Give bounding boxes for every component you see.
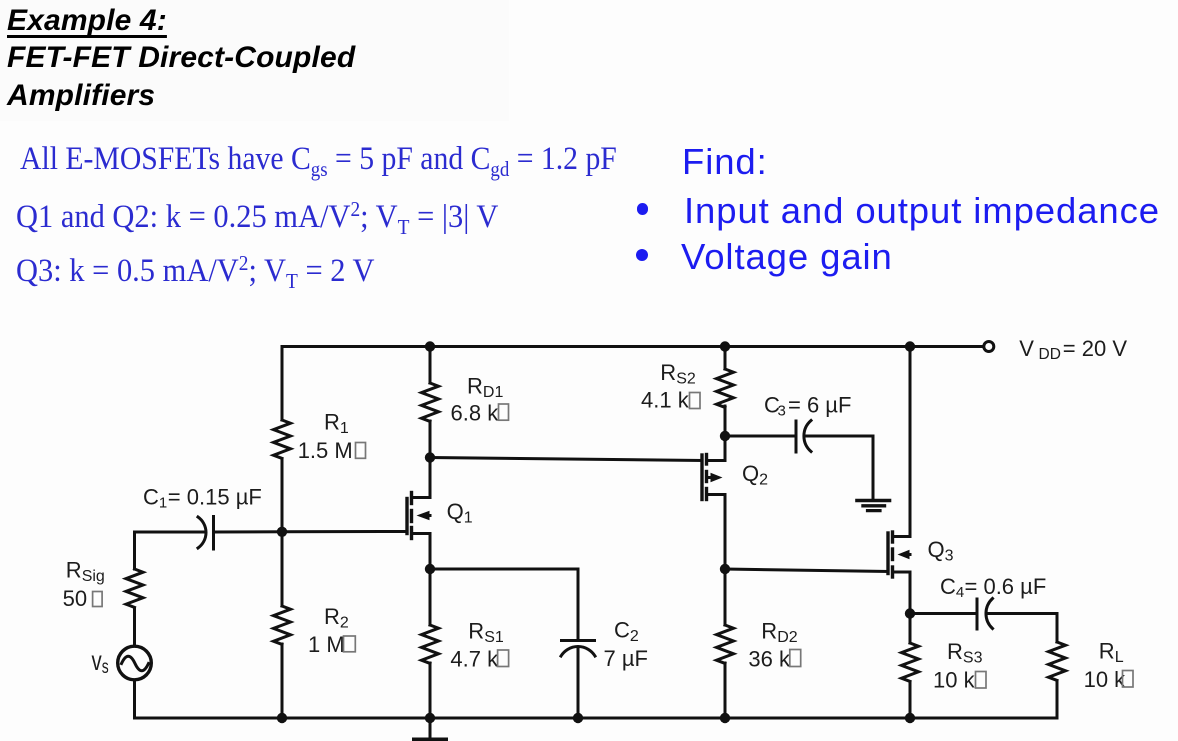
wire Q2 drain node to Q3 gate (725, 569, 888, 572)
node junction Q1 source / RS1 / C2 (425, 564, 435, 574)
node junction bottom rail / C2 (573, 713, 583, 723)
svg-text:RS1: RS1 (468, 618, 504, 646)
wire C1 right plate to gate node (214, 530, 283, 533)
wire top rail to RS2 (724, 347, 727, 370)
resistor RD1 (422, 383, 439, 421)
svg-text:Q2: Q2 (742, 461, 768, 489)
svg-text:4.1 k: 4.1 k (641, 388, 690, 413)
node junction bottom rail / RS1 / ground (425, 713, 435, 723)
wire RD2 to bottom rail (724, 663, 727, 718)
blue serif line 2 (16, 199, 498, 236)
node junction bottom rail / R2 (277, 713, 287, 723)
svg-text:10 k: 10 k (933, 668, 976, 693)
node junction RD1 / Q1 drain / Q2 gate (425, 452, 435, 462)
capacitor C2 (562, 639, 595, 642)
wire RS3 to bottom rail (909, 682, 912, 718)
resistor RL (1049, 642, 1066, 680)
node junction top rail / RS2 (720, 341, 730, 351)
svg-text:RD2: RD2 (761, 619, 797, 647)
wire vs column upper segment (133, 532, 136, 569)
node junction Q2 drain / RD2 / Q3 gate (720, 564, 730, 574)
svg-text:Q1: Q1 (447, 499, 473, 527)
wire R2 to bottom rail (281, 644, 284, 718)
resistor R1 (274, 420, 291, 458)
node junction bottom rail / RD2 (720, 713, 730, 723)
wire Q1 source down to RS1 (429, 534, 432, 626)
capacitor C1 (198, 517, 206, 548)
source vs (AC source symbol) (118, 646, 152, 680)
wire bottom ground rail (135, 717, 1058, 720)
wire vs source to bottom rail (133, 680, 136, 718)
node junction top rail / RD1 (425, 341, 435, 351)
svg-text:C4= 0.6 µF: C4= 0.6 µF (940, 574, 1046, 601)
node junction bottom rail / RS3 (905, 713, 915, 723)
faint placeholder background top-left (0, 0, 509, 121)
wire Q1 source node to C2 (430, 568, 578, 571)
wire vs to C1 left plate (135, 531, 206, 534)
wire gate node to Q1 gate (282, 530, 407, 533)
blue serif line 3 (16, 253, 375, 290)
wire C2 bottom plate to bottom rail (577, 647, 580, 718)
wire C4 right plate to RL (986, 612, 1057, 615)
svg-text:50: 50 (63, 586, 87, 611)
svg-text:C3= 6 µF: C3= 6 µF (764, 393, 851, 420)
svg-text:R1: R1 (324, 409, 349, 437)
node VDD terminal (984, 342, 994, 352)
resistor RS1 (422, 625, 439, 663)
svg-text:RD1: RD1 (467, 374, 503, 402)
wire Q3 source node to C4 left plate (910, 612, 977, 615)
svg-text:vs: vs (92, 646, 109, 678)
wire RS1 to bottom rail and ground stub (429, 663, 432, 738)
wire RS2 to Q2 source (724, 406, 727, 461)
blue serif line 1 (20, 141, 617, 178)
capacitor C3 (795, 421, 798, 452)
Find block (682, 141, 768, 183)
wire R1 to R2 through gate node (281, 459, 284, 606)
wire top rail to RD1 (429, 347, 432, 384)
svg-text:7 µF: 7 µF (604, 646, 648, 671)
svg-text:RS3: RS3 (947, 639, 983, 667)
resistor RSig (126, 569, 143, 607)
svg-text:6.8 k: 6.8 k (451, 401, 500, 426)
svg-text:R2: R2 (324, 604, 349, 632)
svg-text:VDD= 20 V: VDD= 20 V (1019, 336, 1127, 363)
wire top rail corner down to R1 (281, 347, 284, 421)
resistor RS3 (902, 643, 919, 681)
wire top supply rail VDD (282, 345, 984, 348)
resistor R2 (274, 606, 291, 644)
wire Q3 source down to RS3 (909, 572, 912, 643)
wire down to C2 top plate (577, 569, 580, 640)
heading (7, 2, 355, 114)
capacitor C4 (976, 599, 979, 629)
node junction Q3 source / RS3 / C4 (905, 608, 915, 618)
svg-text:1 M: 1 M (308, 632, 345, 657)
transistor Q3 (E-MOSFET) (888, 532, 910, 577)
wire Q2 drain down to RD2 (724, 495, 727, 626)
wire RSig to vs source (133, 608, 136, 646)
wire RL to bottom rail (1056, 681, 1059, 718)
svg-text:10 k: 10 k (1084, 667, 1127, 692)
transistor Q2 (E-MOSFET) (702, 455, 725, 500)
svg-text:C1= 0.15 µF: C1= 0.15 µF (143, 484, 262, 511)
wire Q2 source node to C3 left plate (725, 435, 796, 438)
svg-text:RSig: RSig (66, 557, 105, 585)
node junction gate Q1 / R1 / R2 (277, 527, 287, 537)
wire C3 right plate to ground drop (805, 435, 873, 438)
svg-text:RL: RL (1099, 638, 1124, 666)
wire RD1 drain node to Q2 gate (430, 458, 702, 461)
svg-text:4.7 k: 4.7 k (450, 647, 499, 672)
wire top rail to Q3 drain (909, 347, 912, 537)
transistor Q1 (E-MOSFET) (407, 493, 430, 539)
node junction RS2 / Q2 source / C3 (720, 431, 730, 441)
svg-text:C2: C2 (614, 618, 639, 646)
wire down to RL (1056, 614, 1059, 643)
resistor RS2 (717, 369, 734, 407)
node junction top rail / Q3 drain (905, 341, 915, 351)
wire RD1 to Q1 drain (429, 421, 432, 498)
svg-text:Q3: Q3 (928, 537, 954, 565)
ground for C3 (872, 436, 875, 500)
resistor RD2 (717, 625, 734, 663)
svg-text:1.5 M: 1.5 M (298, 438, 353, 463)
svg-text:RS2: RS2 (660, 360, 696, 388)
ground main (below bottom rail) (414, 738, 446, 741)
svg-text:36 k: 36 k (748, 647, 791, 672)
